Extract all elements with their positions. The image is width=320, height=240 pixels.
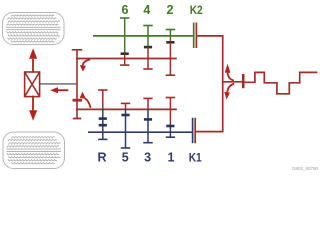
tire rear-left wheel — [3, 132, 65, 169]
gear 6 — [120, 18, 129, 65]
svg-text:2: 2 — [167, 3, 174, 17]
svg-text:1: 1 — [168, 151, 175, 165]
svg-text:D802_60790: D802_60790 — [292, 166, 318, 171]
arrow output shaft 2 to final drive — [80, 92, 91, 108]
tire front-left wheel — [3, 13, 65, 45]
wire differential to pinion shaft — [40, 83, 76, 85]
svg-text:K2: K2 — [190, 3, 203, 17]
arrow crank to K1 — [224, 84, 234, 100]
gear R — [98, 90, 107, 139]
output shaft 1 (upper) — [76, 58, 177, 60]
gear 1 — [166, 98, 175, 138]
svg-text:4: 4 — [143, 3, 150, 17]
clutch K1 — [193, 118, 196, 143]
arrow output shaft 1 to final drive — [80, 59, 90, 71]
svg-text:6: 6 — [122, 3, 129, 17]
clutch K2 — [194, 23, 197, 49]
output shaft 2 (lower) — [76, 108, 177, 110]
crankshaft — [244, 72, 317, 93]
svg-text:5: 5 — [122, 151, 129, 165]
gear 5 — [121, 103, 130, 148]
input shaft 1 (blue, odd gears) — [88, 131, 192, 133]
svg-text:3: 3 — [144, 151, 151, 165]
gear 3 — [143, 98, 152, 142]
gear 4 — [143, 26, 152, 70]
gear 2 (engaged) — [166, 30, 175, 76]
arrow down to wheel — [29, 96, 37, 121]
svg-text:K1: K1 — [189, 151, 202, 165]
pinion final-drive shaft — [72, 50, 83, 119]
differential final-drive box — [25, 72, 40, 97]
svg-text:R: R — [97, 151, 106, 165]
arrow crank to K2 — [225, 64, 234, 81]
arrow left into differential — [50, 87, 68, 93]
input shaft 2 (green, even gears) — [93, 35, 193, 37]
engine input path — [196, 36, 243, 132]
arrow up to wheel — [29, 48, 37, 72]
flywheel — [242, 74, 245, 88]
